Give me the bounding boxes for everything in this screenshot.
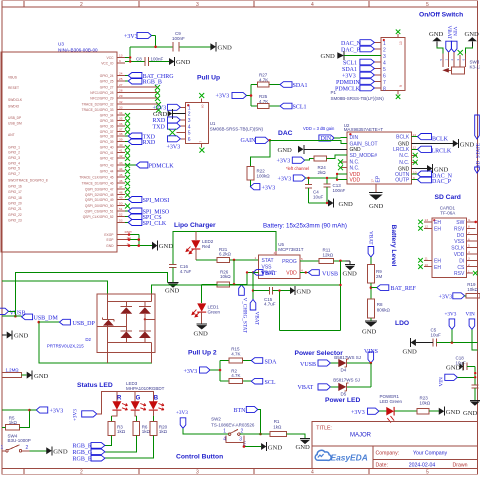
wires to rgb flags: [105, 435, 112, 445]
resistor R21 6.2kΩ: [217, 247, 232, 263]
ground right: [465, 31, 480, 47]
svg-text:2: 2: [468, 263, 470, 267]
svg-text:GPIO_44: GPIO_44: [100, 169, 114, 173]
svg-text:VCC_IO: VCC_IO: [101, 61, 114, 65]
svg-text:8: 8: [468, 225, 470, 229]
svg-text:GPIO_36: GPIO_36: [100, 124, 114, 128]
svg-text:GND: GND: [403, 349, 418, 356]
svg-text:On/Off Switch: On/Off Switch: [419, 12, 463, 19]
U3 pin numbers: [119, 54, 132, 246]
svg-text:10kΩ: 10kΩ: [467, 287, 478, 292]
ground left edge: [2, 331, 29, 340]
svg-text:PDMCLK: PDMCLK: [335, 86, 361, 92]
svg-text:35: 35: [119, 117, 123, 121]
svg-text:TXD: TXD: [153, 125, 166, 131]
reset button sw4: [1, 407, 68, 456]
svg-text:3: 3: [196, 470, 199, 476]
svg-text:PDMDIN: PDMDIN: [336, 80, 360, 86]
ground BCLK row GND: [412, 139, 475, 148]
LED POWER1 green: [386, 407, 394, 423]
svg-text:BAT_REF: BAT_REF: [391, 286, 417, 292]
TXD flag pin4: [153, 123, 181, 130]
ground at C15: [290, 286, 311, 295]
svg-text:100kΩ: 100kΩ: [257, 174, 271, 179]
svg-text:48: 48: [119, 191, 123, 195]
ground under R8: [362, 321, 377, 336]
svg-text:CS: CS: [457, 265, 465, 271]
svg-text:TRACE_D2/GPIO_32: TRACE_D2/GPIO_32: [82, 102, 114, 106]
svg-text:10kΩ: 10kΩ: [420, 401, 431, 406]
svg-text:SDA1: SDA1: [342, 67, 357, 73]
svg-text:SPI_MOSI: SPI_MOSI: [143, 198, 170, 204]
svg-text:MAJOR: MAJOR: [350, 432, 372, 438]
svg-text:36: 36: [119, 122, 123, 126]
wire usb_dp vertical from U3: [39, 322, 152, 363]
ground after R11: [343, 261, 358, 278]
svg-text:1: 1: [383, 41, 386, 47]
svg-text:USB_DM: USB_DM: [34, 316, 59, 322]
svg-text:+3V3: +3V3: [351, 410, 365, 416]
svg-text:GPIO_38: GPIO_38: [100, 134, 114, 138]
svg-text:SCL: SCL: [265, 380, 276, 386]
svg-text:OUTP: OUTP: [395, 178, 410, 184]
svg-text:GND: GND: [369, 203, 384, 210]
svg-text:12: 12: [413, 146, 417, 150]
power flag VIN vertical: [451, 27, 457, 53]
svg-text:50: 50: [119, 202, 123, 206]
svg-text:GPIO_5: GPIO_5: [8, 167, 20, 171]
wire GAIN to GAIN_SLOT: [270, 140, 347, 143]
svg-text:VBUS: VBUS: [8, 75, 18, 79]
net flag VIN horizontal: [439, 374, 476, 386]
wire R21 to U5 STAT: [230, 259, 259, 261]
svg-text:GND: GND: [321, 53, 336, 60]
svg-text:49: 49: [119, 196, 123, 200]
svg-text:K3-13: K3-13: [470, 64, 480, 69]
net flag DAC_N pin1: [341, 40, 374, 47]
svg-text:VIN: VIN: [466, 311, 475, 317]
svg-text:2kΩ: 2kΩ: [318, 170, 327, 175]
wire gnd to sw3: [437, 47, 443, 54]
svg-text:3: 3: [239, 437, 242, 443]
ground after R23: [439, 407, 461, 416]
net flag PDMCLK: [125, 162, 174, 170]
svg-text:VDD: VDD: [286, 271, 297, 277]
svg-text:GPIO_24: GPIO_24: [100, 74, 114, 78]
svg-text:27: 27: [119, 83, 123, 87]
bottom stubs: [106, 353, 108, 364]
ground left of C18: [446, 362, 464, 371]
title block: [312, 422, 478, 469]
power flag VBAT vertical down: [250, 300, 259, 326]
net flag PDMCLK pin8: [335, 85, 374, 92]
ldo: [395, 311, 480, 417]
svg-text:USB_DM: USB_DM: [8, 121, 22, 125]
svg-text:TS-1086EV-AR03526: TS-1086EV-AR03526: [211, 422, 255, 427]
net flag BCLK: [412, 134, 449, 143]
svg-text:VIN: VIN: [451, 27, 457, 36]
svg-text:2M: 2M: [376, 274, 383, 279]
svg-text:12kΩ: 12kΩ: [323, 253, 334, 258]
switch SW4 B3U-1000P: [1, 433, 31, 452]
svg-text:VUSB: VUSB: [300, 362, 316, 368]
svg-text:32: 32: [119, 100, 123, 104]
net flag RXD: [125, 139, 156, 147]
svg-text:TRACE_CLK/GPIO_45: TRACE_CLK/GPIO_45: [79, 175, 113, 179]
svg-text:GND: GND: [278, 147, 293, 154]
svg-text:Control Button: Control Button: [176, 454, 223, 461]
pullup R27 R25: [216, 73, 308, 111]
svg-text:Pull Up 2: Pull Up 2: [188, 350, 217, 357]
capacitor C16 4.7uF: [169, 264, 191, 282]
svg-text:LDO: LDO: [395, 320, 409, 327]
svg-text:GPIO_40: GPIO_40: [100, 145, 114, 149]
LED blue channel: [149, 401, 164, 421]
svg-text:10: 10: [425, 263, 429, 267]
net flag DAC_N: [412, 171, 453, 180]
svg-text:2: 2: [383, 47, 386, 53]
svg-text:10uF: 10uF: [431, 333, 442, 338]
wire usb_dm: [2, 315, 22, 317]
svg-text:6: 6: [188, 137, 191, 143]
resistor R15 4.7K: [229, 346, 243, 363]
svg-text:VBAT: VBAT: [254, 312, 260, 326]
resistor R20 1kΩ: [150, 422, 168, 436]
svg-text:17: 17: [371, 179, 375, 183]
resistor R5 1kΩ: [6, 415, 20, 430]
svg-text:4.7uF: 4.7uF: [264, 302, 276, 307]
nc X shield pins: [396, 30, 401, 35]
svg-text:MCP73831T: MCP73831T: [278, 247, 304, 252]
svg-text:1: 1: [188, 105, 191, 111]
svg-text:9: 9: [399, 85, 403, 87]
ground under C16: [165, 282, 180, 294]
diode D5 B5817WS SJ: [333, 377, 360, 396]
svg-text:4.7K: 4.7K: [231, 351, 240, 356]
net flag DAC_P pin2: [341, 46, 374, 53]
svg-text:43: 43: [119, 161, 123, 165]
svg-text:GPIO_4: GPIO_4: [8, 161, 20, 165]
switch SW3: [439, 52, 480, 74]
svg-text:+3V3: +3V3: [124, 34, 138, 40]
svg-text:10kΩ: 10kΩ: [220, 274, 231, 279]
svg-text:PDMCLK: PDMCLK: [149, 164, 175, 170]
nc X pin5: [169, 129, 176, 136]
svg-text:28: 28: [119, 89, 123, 93]
wire vusb rail to R11: [152, 285, 341, 294]
svg-text:TRACE_D1/GPIO_33: TRACE_D1/GPIO_33: [82, 108, 114, 112]
svg-text:GND: GND: [194, 330, 209, 337]
svg-text:6: 6: [468, 237, 470, 241]
ground under R1: [296, 439, 311, 451]
svg-text:DAC: DAC: [278, 130, 293, 137]
svg-text:R8: R8: [377, 302, 383, 307]
resistor R22 100kΩ: [247, 166, 270, 180]
svg-text:Green: Green: [208, 309, 221, 314]
net flag VUSB: [0, 308, 26, 317]
svg-text:10: 10: [413, 170, 417, 174]
svg-text:TRACE_D1/GPIO_46: TRACE_D1/GPIO_46: [82, 181, 114, 185]
svg-text:6.2kΩ: 6.2kΩ: [219, 252, 232, 257]
svg-text:RGB_R: RGB_R: [73, 444, 92, 450]
svg-text:GND: GND: [434, 166, 449, 173]
svg-text:39: 39: [119, 138, 123, 142]
svg-text:D2: D2: [85, 337, 91, 342]
svg-text:1kΩ: 1kΩ: [159, 429, 168, 434]
svg-text:2: 2: [26, 445, 29, 451]
svg-text:GPIO_27: GPIO_27: [100, 85, 114, 89]
svg-text:B3U-1000P: B3U-1000P: [8, 438, 31, 443]
svg-text:5: 5: [188, 131, 191, 137]
lipo charger: [165, 222, 357, 337]
svg-text:GND: GND: [34, 373, 49, 380]
svg-text:DI: DI: [459, 258, 464, 264]
net flag SCL1: [280, 103, 307, 110]
svg-text:GPIO_39: GPIO_39: [100, 140, 114, 144]
svg-text:RGB_B: RGB_B: [73, 457, 92, 463]
net flag SPI_MOSI: [125, 197, 169, 205]
svg-text:3: 3: [188, 118, 191, 124]
svg-text:NFC1/GPIO_28: NFC1/GPIO_28: [90, 91, 113, 95]
svg-text:9: 9: [413, 176, 415, 180]
svg-text:DIN: DIN: [350, 135, 359, 141]
net flag GAIN: [241, 137, 272, 144]
ground at switch E: [243, 442, 283, 451]
junction: [154, 46, 157, 49]
svg-text:GPIO_43: GPIO_43: [100, 163, 114, 167]
svg-text:3: 3: [468, 257, 470, 261]
net flag SPI_MISO: [125, 208, 170, 216]
esd diode array D2 PRTR5V0U2X,215: [47, 294, 155, 363]
wire rail B to D2: [2, 281, 107, 294]
net flag V_CHRG_STAT vertical: [239, 285, 248, 334]
connector U1: [153, 93, 264, 153]
svg-text:29: 29: [119, 94, 123, 98]
svg-text:QSPI_D2/GPIO_48: QSPI_D2/GPIO_48: [85, 193, 114, 197]
svg-text:SCLK: SCLK: [451, 246, 465, 252]
svg-text:GND: GND: [362, 329, 377, 336]
ground left: [429, 31, 444, 47]
svg-text:GPIO_17: GPIO_17: [8, 190, 22, 194]
svg-text:5: 5: [383, 67, 386, 73]
svg-text:PRTR5V0U2X,215: PRTR5V0U2X,215: [47, 344, 84, 349]
svg-text:SD_MODE#: SD_MODE#: [350, 153, 378, 159]
svg-text:4.7uF: 4.7uF: [180, 269, 192, 274]
svg-text:VBAT: VBAT: [368, 231, 374, 245]
zener diode: [103, 317, 115, 321]
svg-text:STAT: STAT: [262, 258, 274, 264]
svg-text:GPIO_23: GPIO_23: [8, 218, 22, 222]
svg-text:5: 5: [426, 2, 429, 8]
wire R26 junction: [202, 284, 242, 303]
svg-text:1kΩ: 1kΩ: [142, 429, 151, 434]
svg-text:10uF: 10uF: [313, 195, 324, 200]
diode top-left: [120, 301, 132, 330]
control button: [176, 406, 310, 460]
svg-text:GND: GND: [53, 449, 68, 456]
battery level: [362, 225, 417, 336]
svg-text:5: 5: [301, 257, 303, 261]
svg-text:GND: GND: [446, 364, 461, 371]
svg-text:TF-06A: TF-06A: [440, 211, 455, 216]
svg-text:1: 1: [468, 269, 470, 273]
R G B labels: [117, 396, 159, 402]
svg-text:14: 14: [413, 133, 417, 137]
svg-text:7: 7: [199, 141, 203, 143]
svg-text:DAC_P: DAC_P: [432, 179, 452, 185]
power flag VBAT vertical: [446, 26, 452, 53]
svg-text:4.7K: 4.7K: [231, 373, 240, 378]
svg-text:VDD: VDD: [454, 252, 465, 258]
resistor R11 12kΩ: [300, 247, 346, 263]
svg-text:VIN: VIN: [439, 377, 445, 386]
svg-text:GND: GND: [14, 333, 29, 340]
net flag SPI_CLK: [125, 220, 167, 228]
EP pad ground: [369, 175, 384, 210]
svg-text:GND: GND: [429, 31, 444, 38]
svg-text:4: 4: [311, 470, 314, 476]
svg-text:1: 1: [1, 445, 4, 451]
power flag +3V3 vertical text: [73, 409, 97, 421]
svg-text:7: 7: [468, 231, 470, 235]
ground LRCLK row2 GND: [412, 164, 449, 173]
svg-text:VCC: VCC: [107, 56, 115, 60]
svg-text:2: 2: [241, 428, 244, 434]
power flag +3V3: [351, 408, 379, 416]
svg-text:10: 10: [399, 41, 403, 45]
svg-text:1: 1: [223, 428, 226, 434]
ground flag pin3: [321, 51, 382, 60]
resistor R2 4.7K: [229, 368, 243, 383]
diode bottom-right: [139, 331, 151, 343]
ground C4 C13: [309, 199, 354, 209]
diode D4 B5817WS SJ: [334, 355, 361, 372]
wire GAIN to R22: [250, 140, 269, 166]
svg-text:GPIO_18: GPIO_18: [8, 196, 22, 200]
gnd net wiring right: [280, 261, 341, 331]
svg-text:4: 4: [188, 124, 191, 130]
svg-text:*left channel: *left channel: [286, 166, 309, 171]
svg-text:R: R: [117, 396, 122, 402]
svg-text:DIN: DIN: [321, 136, 332, 142]
nc X bottom RSV: [473, 271, 478, 276]
svg-text:4: 4: [468, 250, 470, 254]
svg-text:25: 25: [119, 77, 123, 81]
svg-text:51: 51: [119, 207, 123, 211]
net flag RGB_B: [73, 455, 105, 462]
resistor R26 10kΩ: [217, 270, 231, 287]
wire VCC pin column: [125, 47, 169, 62]
wire down to R26 row: [233, 260, 235, 284]
svg-text:Battery Level: Battery Level: [390, 225, 397, 267]
svg-text:EP: EP: [376, 175, 382, 182]
resistor R27 4.7K: [258, 73, 270, 88]
wire usb_dp: [39, 321, 60, 323]
LED red channel: [112, 401, 128, 421]
svg-text:40: 40: [119, 143, 123, 147]
net flag VUSB: [300, 360, 330, 368]
svg-text:SD_STATE: SD_STATE: [475, 143, 480, 167]
ground under C19: [463, 400, 480, 417]
svg-text:TITLE:: TITLE:: [316, 426, 332, 432]
capacitor C8 100nF: [136, 56, 164, 66]
capacitor C5 10uF: [431, 328, 478, 347]
svg-text:GPIO_21: GPIO_21: [8, 207, 22, 211]
svg-text:3: 3: [383, 54, 386, 60]
resistor R25 4.7K: [258, 94, 270, 109]
svg-text:GPIO_22: GPIO_22: [8, 213, 22, 217]
svg-text:1kΩ: 1kΩ: [117, 429, 126, 434]
svg-text:GPIO_1: GPIO_1: [8, 145, 20, 149]
diode bottom-left: [120, 331, 132, 343]
svg-text:+3V3: +3V3: [342, 73, 356, 79]
power flag +3V3 to VDD: [278, 175, 306, 183]
power flag +3V3 vertical: [445, 311, 457, 329]
svg-text:Red: Red: [202, 244, 211, 249]
resistor R6 1kΩ: [133, 422, 151, 436]
net flag RGB_R: [73, 443, 105, 450]
svg-text:4: 4: [383, 60, 386, 66]
wire rail C9: [130, 46, 173, 48]
op-amp U2 box: [347, 132, 411, 184]
U1 pin stubs: [177, 107, 186, 139]
capacitor C13 100nF: [323, 177, 345, 203]
svg-text:GPIO_41: GPIO_41: [100, 151, 114, 155]
svg-text:44: 44: [119, 167, 123, 171]
ground sw4: [46, 446, 68, 455]
wires from U3 right pins (stub to X at 155): [125, 87, 158, 110]
svg-text:GAIN: GAIN: [241, 138, 257, 144]
net flag BTN: [234, 406, 258, 414]
svg-text:VDD: VDD: [350, 178, 361, 184]
svg-text:+3V3: +3V3: [216, 94, 230, 100]
svg-text:41: 41: [119, 149, 123, 153]
svg-text:EXGP: EXGP: [104, 233, 114, 237]
svg-text:D5: D5: [341, 391, 347, 396]
svg-text:QSPI_CS/GPIO_51: QSPI_CS/GPIO_51: [85, 209, 114, 213]
svg-text:GPIO_20: GPIO_20: [8, 201, 22, 205]
+3V3 flag pin6: [167, 136, 181, 151]
svg-text:33: 33: [119, 106, 123, 110]
svg-text:+3V3: +3V3: [439, 294, 453, 300]
net flag SCL: [251, 378, 276, 386]
resistor R9 2M: [368, 265, 383, 284]
net flag PDMDIN pin7: [336, 79, 374, 86]
wire 3v3 rail: [173, 231, 276, 264]
wire R24 to SD_MODE#: [326, 155, 347, 159]
nc X U2 right N.C. pins: [412, 154, 417, 156]
net flag USB_DP: [59, 319, 95, 327]
svg-text:9: 9: [119, 59, 121, 63]
svg-text:EH: EH: [434, 265, 441, 271]
svg-text:VBAT: VBAT: [261, 271, 277, 277]
svg-text:13: 13: [119, 54, 123, 58]
svg-text:QSPI_CLK/GPIO_52: QSPI_CLK/GPIO_52: [83, 215, 114, 219]
capacitor C4 10uF: [305, 177, 324, 203]
resistor R24 2kΩ: [314, 156, 327, 175]
svg-text:GND: GND: [460, 141, 475, 148]
svg-text:LRCLK: LRCLK: [432, 149, 452, 155]
svg-text:SW: SW: [456, 220, 464, 226]
svg-text:RXD: RXD: [153, 118, 166, 124]
net flag SCL1 pin4: [343, 59, 374, 66]
svg-text:1: 1: [255, 256, 257, 260]
svg-text:2: 2: [80, 470, 83, 476]
wire LED2 to R21: [196, 259, 217, 261]
resistor R3 1kΩ: [108, 422, 126, 436]
connector P1: [321, 30, 406, 102]
svg-text:GPIO_3: GPIO_3: [8, 156, 20, 160]
